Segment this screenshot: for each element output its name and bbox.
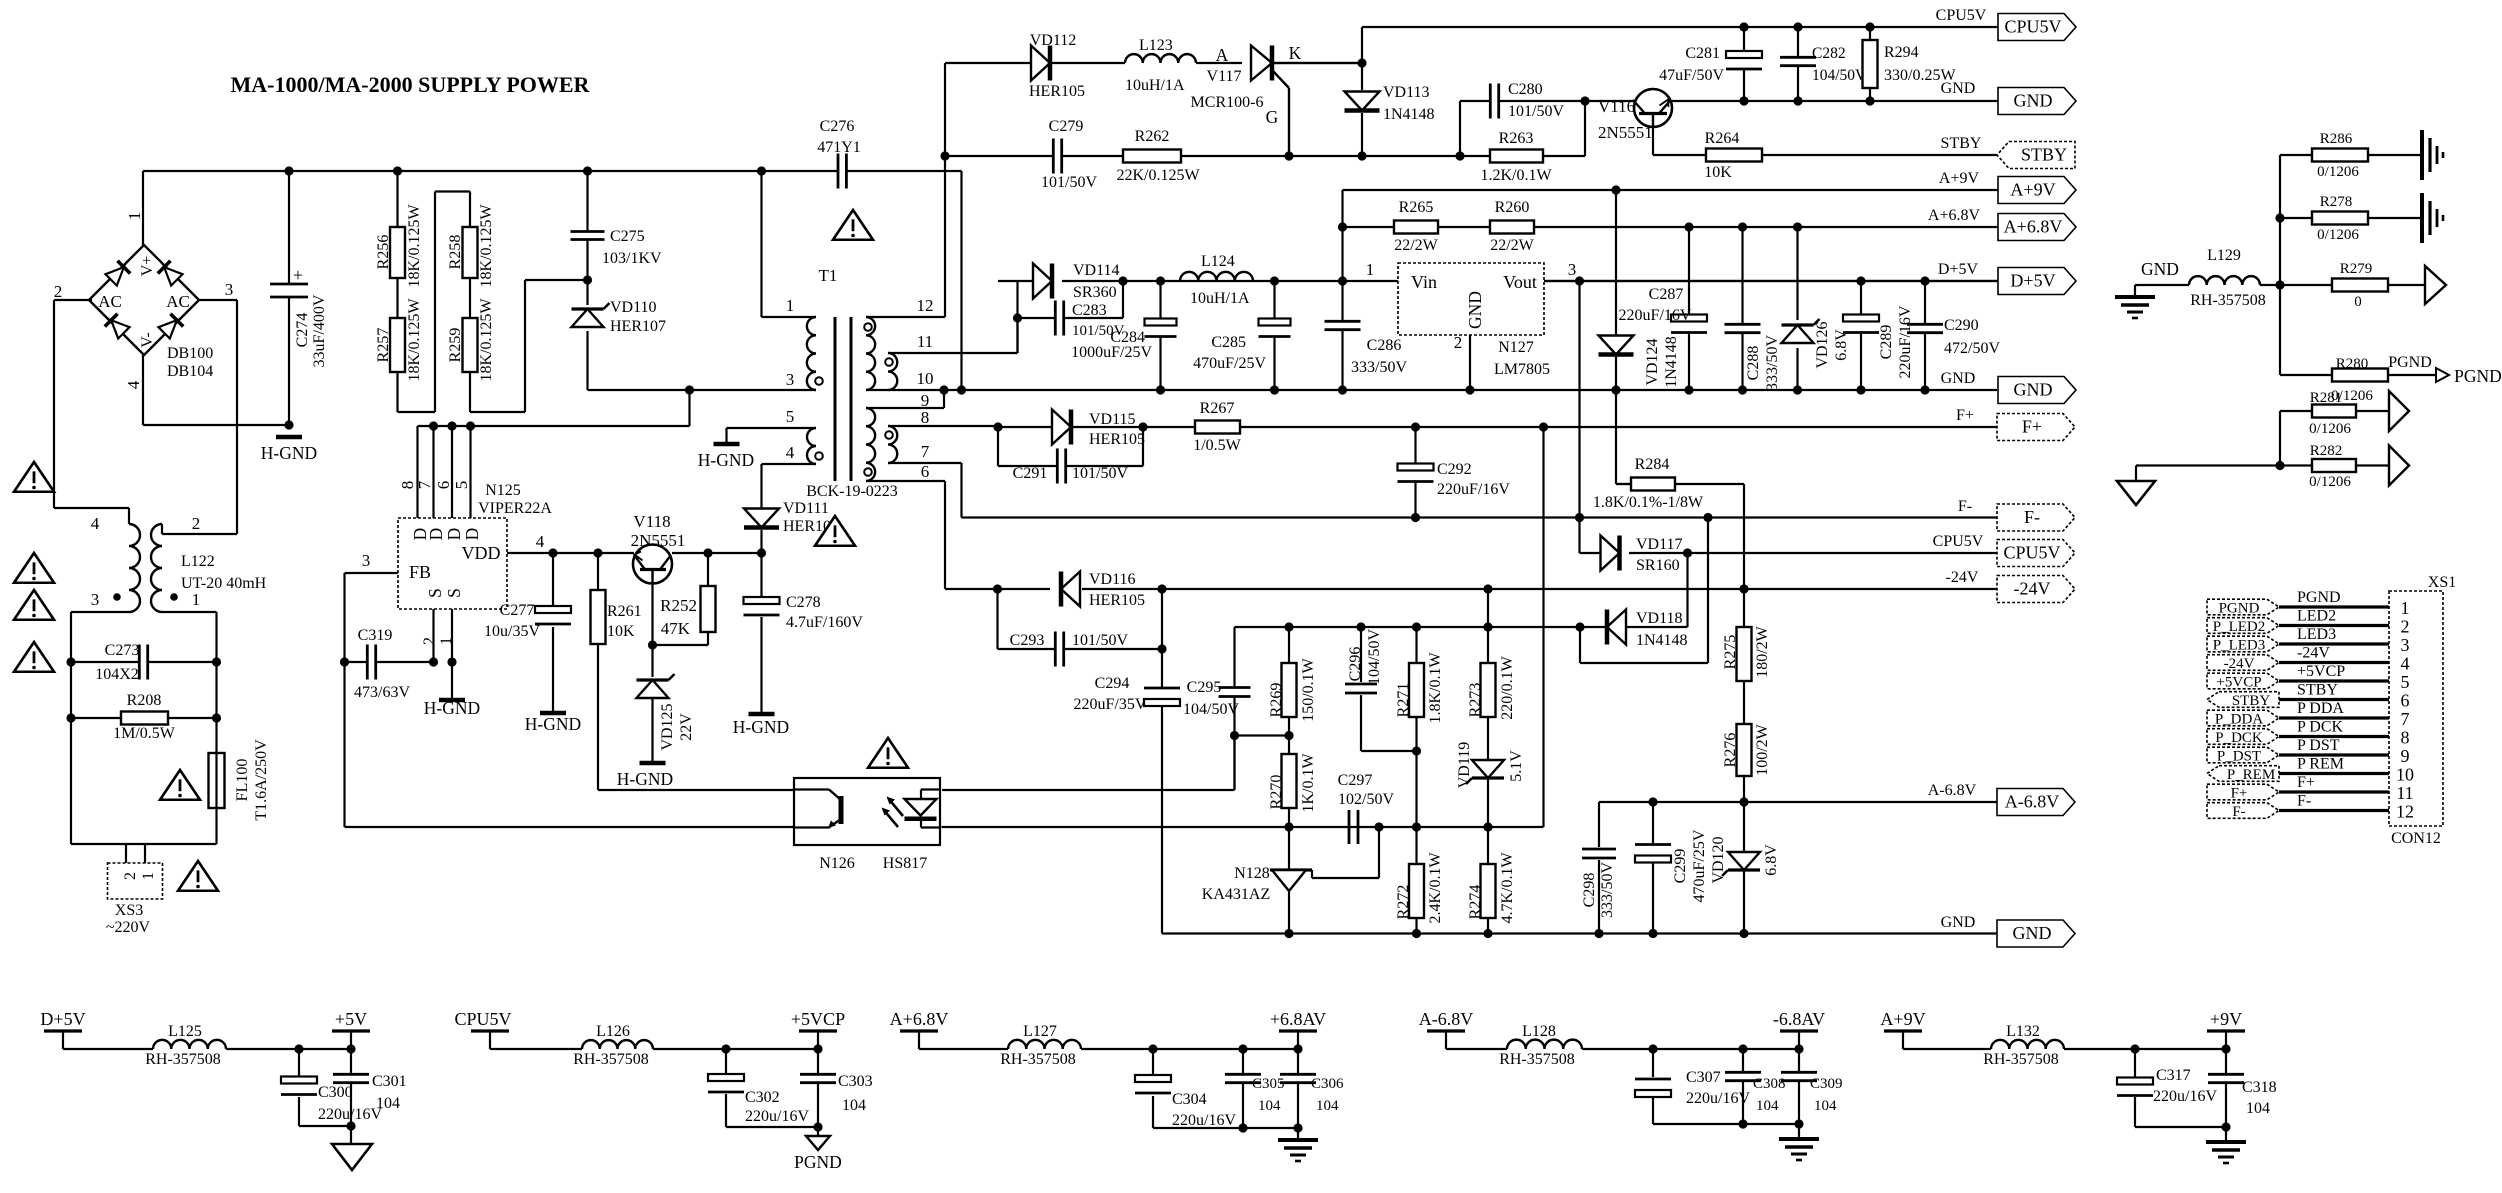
diode VD114 SR360 xyxy=(1033,262,1120,301)
wire T1 pin12 xyxy=(866,63,945,317)
wire C291 loop xyxy=(998,427,1143,466)
svg-text:104/50V: 104/50V xyxy=(1812,67,1867,84)
capacitor C317 220u/16V xyxy=(2117,1067,2217,1105)
svg-text:P_DST: P_DST xyxy=(2217,749,2261,765)
svg-text:3: 3 xyxy=(225,280,234,299)
resistor R271 1.8K/0.1W xyxy=(1395,652,1444,724)
junction R275 top xyxy=(1739,584,1748,593)
svg-text:5: 5 xyxy=(2401,672,2410,692)
svg-text:C306: C306 xyxy=(1311,1076,1344,1092)
wire N125 pin5 xyxy=(469,426,471,518)
svg-text:DB100: DB100 xyxy=(167,345,213,362)
wire V118 emitter xyxy=(651,584,653,677)
svg-text:104: 104 xyxy=(842,1097,866,1114)
net flag GND mid xyxy=(1998,377,2076,404)
resistor R270 1K/0.1W xyxy=(1268,753,1317,813)
wire R263 row xyxy=(1460,155,1585,157)
junctions drain bus xyxy=(429,421,475,430)
wire C308 branch xyxy=(1742,1049,1744,1124)
capacitor C307 220u/16V xyxy=(1635,1069,1750,1107)
svg-text:S: S xyxy=(444,588,464,598)
net flag P_DCK XS1 xyxy=(2207,729,2279,746)
inductor L126 RH-357508 xyxy=(573,1023,653,1068)
labels V116 xyxy=(1598,97,1653,142)
junction R276 bottom xyxy=(1739,797,1748,806)
resistor R256 18K/0.125W xyxy=(375,204,423,288)
svg-text:C287: C287 xyxy=(1649,286,1684,303)
wire VD124 vertical xyxy=(1616,190,1631,484)
capacitor C290 472/50V xyxy=(1907,317,2000,357)
svg-text:VD120: VD120 xyxy=(1710,836,1727,883)
svg-text:104: 104 xyxy=(376,1095,400,1112)
junctions R208 xyxy=(66,713,221,722)
wire C301 branch xyxy=(350,1049,352,1144)
wire XS1 pin 5 xyxy=(2279,679,2389,682)
svg-text:2N5551: 2N5551 xyxy=(1598,123,1653,142)
svg-text:HS817: HS817 xyxy=(883,855,927,872)
svg-text:10u/35V: 10u/35V xyxy=(484,623,540,640)
svg-text:GND: GND xyxy=(1465,291,1485,329)
wire VDD rail xyxy=(507,552,762,554)
svg-text:333/50V: 333/50V xyxy=(1599,862,1616,918)
wire VD110 row to T1 pin3 xyxy=(588,389,817,391)
svg-text:R272: R272 xyxy=(1395,885,1412,920)
svg-text:1N4148: 1N4148 xyxy=(1663,336,1680,388)
capacitor C279 101/50V xyxy=(1041,118,1097,191)
svg-text:101/50V: 101/50V xyxy=(1072,632,1128,649)
label PGND wire xyxy=(2388,354,2432,371)
svg-text:104: 104 xyxy=(1258,1098,1281,1114)
junction V118 emitter xyxy=(648,640,657,649)
junction C276 gnd rail xyxy=(957,385,966,394)
wire bridge pin2 to L122 xyxy=(54,300,129,524)
svg-text:A+6.8V: A+6.8V xyxy=(2004,217,2063,237)
resistor R263 1.2K/0.1W xyxy=(1490,150,1543,163)
resistor R276 100/2W xyxy=(1722,723,1771,776)
bridge labels xyxy=(54,212,234,390)
wire L126 row xyxy=(490,1048,818,1050)
wire C293 loop xyxy=(998,589,1163,649)
svg-text:Vin: Vin xyxy=(1411,272,1437,292)
svg-text:4: 4 xyxy=(124,380,143,389)
warning triangle 1 xyxy=(14,462,54,492)
label pin 4 N125 xyxy=(536,532,545,551)
junction VD120 bottom xyxy=(1739,929,1748,938)
svg-text:1: 1 xyxy=(2401,598,2410,618)
wire XS1 pin 7 xyxy=(2279,716,2389,719)
ground H-GND under C274 xyxy=(276,435,302,440)
wire A+6.8V rail xyxy=(1343,226,1999,228)
svg-text:H-GND: H-GND xyxy=(525,714,581,734)
wire T1 pin1 xyxy=(762,171,817,317)
svg-text:P_DCK: P_DCK xyxy=(2215,730,2263,746)
capacitor C283 101/50V xyxy=(1055,301,1124,340)
capacitor C281 47uF/50V xyxy=(1659,45,1762,84)
svg-text:FL100: FL100 xyxy=(234,759,251,802)
junction C299 bottom xyxy=(1648,929,1657,938)
wire C285 vertical xyxy=(1273,281,1275,390)
junction A+9V sense xyxy=(1611,185,1620,194)
capacitor C293 101/50V xyxy=(1010,632,1129,667)
wire R252 top xyxy=(707,553,709,586)
svg-text:4: 4 xyxy=(91,514,100,533)
label N127 pin1 xyxy=(1366,260,1375,279)
wire opto LED anode xyxy=(942,736,1235,791)
wire VD126 vertical xyxy=(1796,227,1798,390)
diode VD110 HER107 xyxy=(572,299,667,335)
labels R294 xyxy=(1884,44,1956,84)
svg-text:GND: GND xyxy=(2014,91,2053,111)
svg-text:STBY: STBY xyxy=(1941,135,1982,152)
svg-text:R286: R286 xyxy=(2320,131,2353,147)
svg-text:P DCK: P DCK xyxy=(2297,719,2344,736)
title xyxy=(231,72,591,97)
wire opto LED cathode row C xyxy=(940,826,943,828)
svg-text:104: 104 xyxy=(1814,1098,1837,1114)
net flag GND bottom xyxy=(1997,920,2075,947)
wire L128 row xyxy=(1446,1048,1799,1050)
wire C275 vertical xyxy=(586,171,588,280)
svg-text:1: 1 xyxy=(125,212,144,221)
svg-text:472/50V: 472/50V xyxy=(1944,340,2000,357)
svg-text:C295: C295 xyxy=(1187,679,1222,696)
svg-text:R261: R261 xyxy=(607,603,642,620)
svg-text:R271: R271 xyxy=(1395,683,1412,718)
svg-text:+9V: +9V xyxy=(2210,1009,2242,1029)
label XS1 pin number 4 xyxy=(2401,654,2410,674)
net flag P_DST XS1 xyxy=(2207,747,2279,764)
svg-text:F-: F- xyxy=(2232,804,2245,820)
svg-text:C297: C297 xyxy=(1338,772,1373,789)
svg-text:T1.6A/250V: T1.6A/250V xyxy=(253,739,270,821)
svg-text:4.7K/0.1W: 4.7K/0.1W xyxy=(1499,852,1516,924)
wire C295 branch xyxy=(1233,627,1235,736)
junctions block3 gnd xyxy=(1238,1123,1302,1132)
svg-text:220uF/16V: 220uF/16V xyxy=(1897,305,1914,378)
capacitor C288 333/50V xyxy=(1725,324,1782,391)
wire C302 branch xyxy=(726,1049,818,1127)
ground H-GND under C278 xyxy=(749,712,775,717)
svg-text:R264: R264 xyxy=(1705,130,1740,147)
inductor L129 RH-357508 xyxy=(2189,247,2266,309)
svg-text:1000uF/25V: 1000uF/25V xyxy=(1071,344,1152,361)
wire C303 branch xyxy=(817,1049,819,1136)
svg-text:104X2: 104X2 xyxy=(95,666,139,683)
label XS1 pin number 9 xyxy=(2401,746,2410,766)
label T1 pin4 xyxy=(786,443,795,462)
svg-text:R276: R276 xyxy=(1722,733,1739,768)
svg-text:470uF/25V: 470uF/25V xyxy=(1691,829,1708,902)
junction VD118 left rowA xyxy=(1575,622,1584,631)
resistor R272 2.4K/0.1W xyxy=(1395,852,1444,924)
label T1 pin12 xyxy=(917,296,934,315)
labels L122 xyxy=(91,514,267,609)
wire F+ rail xyxy=(998,426,1997,428)
net flag +5VCP XS1 xyxy=(2207,673,2279,690)
wire C304 branch xyxy=(1153,1049,1298,1128)
svg-text:C293: C293 xyxy=(1010,632,1045,649)
svg-text:8: 8 xyxy=(921,408,930,427)
wire XS1 pin 2 xyxy=(2279,624,2389,627)
svg-text:DB104: DB104 xyxy=(167,363,213,380)
svg-text:A-6.8V: A-6.8V xyxy=(1419,1009,1474,1029)
wire A+9V rail xyxy=(1343,190,1999,281)
labels N126 HS817 xyxy=(819,855,927,872)
junction VD113 bottom xyxy=(1357,151,1366,160)
svg-text:+5VCP: +5VCP xyxy=(2216,675,2261,691)
capacitor C285 470uF/25V xyxy=(1193,319,1290,373)
svg-text:5.1V: 5.1V xyxy=(1508,750,1525,782)
svg-text:L126: L126 xyxy=(596,1023,630,1040)
capacitor C295 104/50V xyxy=(1183,679,1251,718)
resistor R275 180/2W xyxy=(1722,625,1771,681)
net flag D+5V xyxy=(1998,268,2076,295)
svg-text:220/0.1W: 220/0.1W xyxy=(1499,655,1516,719)
svg-text:C294: C294 xyxy=(1095,675,1130,692)
capacitor C278 4.7uF/160V xyxy=(744,594,864,631)
svg-text:Vout: Vout xyxy=(1503,272,1537,292)
svg-text:1: 1 xyxy=(1366,260,1375,279)
svg-text:3: 3 xyxy=(91,590,100,609)
label XS1 pin number 5 xyxy=(2401,672,2410,692)
svg-text:C299: C299 xyxy=(1672,849,1689,884)
svg-text:P_DDA: P_DDA xyxy=(2215,712,2264,728)
svg-text:A-6.8V: A-6.8V xyxy=(2005,792,2060,812)
svg-text:MCR100-6: MCR100-6 xyxy=(1191,94,1264,111)
svg-text:XS1: XS1 xyxy=(2428,574,2456,591)
svg-text:47uF/50V: 47uF/50V xyxy=(1659,67,1724,84)
svg-text:V116: V116 xyxy=(1598,97,1635,116)
junctions block4 xyxy=(1648,1044,1803,1053)
wire C309 branch xyxy=(1798,1049,1800,1139)
svg-text:C296: C296 xyxy=(1347,647,1364,682)
label A+9V net xyxy=(1939,170,1980,187)
wire XS1 pin 4 xyxy=(2279,661,2389,664)
T1 secondary winding pins 12-11-10 xyxy=(864,317,897,390)
label T1 pin11 xyxy=(917,332,933,351)
label H-GND pin5 xyxy=(698,450,754,470)
svg-text:D+5V: D+5V xyxy=(2010,271,2055,291)
svg-text:7: 7 xyxy=(2401,709,2410,729)
svg-text:VD126: VD126 xyxy=(1814,321,1831,368)
wire N125 drain bus xyxy=(418,390,690,426)
svg-text:R294: R294 xyxy=(1884,44,1919,61)
junctions VD126 xyxy=(1793,222,1802,394)
svg-text:+5V: +5V xyxy=(335,1009,367,1029)
svg-text:-24V: -24V xyxy=(2014,579,2051,599)
resistor R252 47K xyxy=(701,586,716,632)
junction R281 R282 xyxy=(2275,461,2284,470)
svg-text:C285: C285 xyxy=(1211,334,1246,351)
junction R265 left xyxy=(1338,222,1347,231)
svg-text:N126: N126 xyxy=(819,855,855,872)
diode VD120 6.8V xyxy=(1710,836,1780,883)
svg-text:+5VCP: +5VCP xyxy=(791,1009,845,1029)
inductor L125 RH-357508 xyxy=(145,1023,226,1068)
junction VD117 out xyxy=(1683,548,1692,557)
svg-text:R275: R275 xyxy=(1722,635,1739,670)
wire R257 bottom jog xyxy=(398,192,471,413)
wire VD120 branch xyxy=(1743,802,1745,934)
svg-text:CPU5V: CPU5V xyxy=(1933,533,1984,550)
svg-text:XS3: XS3 xyxy=(115,902,143,919)
wire C307 branch xyxy=(1653,1049,1799,1124)
svg-text:C317: C317 xyxy=(2156,1067,2191,1084)
svg-text:1: 1 xyxy=(786,296,795,315)
svg-text:N125: N125 xyxy=(485,482,521,499)
power stub D+5V xyxy=(40,1009,85,1049)
junctions C286 xyxy=(1338,276,1347,394)
junction R256 rail xyxy=(393,166,402,175)
svg-text:P_LED3: P_LED3 xyxy=(2213,638,2266,654)
junctions GND rail xyxy=(1739,96,1874,105)
junction C292 bottom xyxy=(1411,513,1420,522)
diode VD115 HER105 xyxy=(1052,410,1145,449)
wire XS1 pin 11 xyxy=(2279,790,2389,793)
resistor R284 1.8K/0.1%-1/8W xyxy=(1631,478,1675,491)
svg-text:10uH/1A: 10uH/1A xyxy=(1190,290,1250,307)
svg-text:470uF/25V: 470uF/25V xyxy=(1193,355,1266,372)
warning triangle under C276 xyxy=(833,210,873,240)
svg-text:V-: V- xyxy=(139,332,156,347)
svg-text:RH-357508: RH-357508 xyxy=(1983,1051,2059,1068)
ground H-GND under C277 xyxy=(540,711,566,716)
junctions C273 xyxy=(66,657,221,666)
svg-text:C289: C289 xyxy=(1878,325,1895,360)
svg-text:VD111: VD111 xyxy=(783,500,829,517)
svg-text:101/50V: 101/50V xyxy=(1508,103,1564,120)
svg-text:L128: L128 xyxy=(1522,1023,1556,1040)
svg-text:220u/16V: 220u/16V xyxy=(2153,1088,2217,1105)
labels N128 xyxy=(1202,865,1270,903)
svg-text:GND: GND xyxy=(2141,259,2179,279)
wire XS1 pin 9 xyxy=(2279,753,2389,756)
label net STBY XS1 xyxy=(2297,682,2338,699)
junction C274 top rail xyxy=(284,166,293,175)
labels N125 pin numbers xyxy=(398,480,471,489)
wire C280 loop xyxy=(1460,101,1585,156)
svg-text:GND: GND xyxy=(1941,80,1976,97)
svg-text:VD125: VD125 xyxy=(659,703,676,750)
junction VD115 out xyxy=(1138,422,1147,431)
diode VD118 1N4148 xyxy=(1607,610,1688,650)
wire N125 pin6 xyxy=(451,426,453,518)
svg-text:1M/0.5W: 1M/0.5W xyxy=(113,725,176,742)
net flag F- xyxy=(1997,504,2075,531)
capacitor C308 104 xyxy=(1725,1072,1786,1114)
svg-text:0: 0 xyxy=(2354,294,2362,310)
label XS1 pin number 8 xyxy=(2401,728,2410,748)
svg-text:HER105: HER105 xyxy=(1029,83,1085,100)
svg-text:1: 1 xyxy=(192,590,201,609)
svg-text:4: 4 xyxy=(2401,654,2410,674)
svg-text:220u/16V: 220u/16V xyxy=(1686,1090,1750,1107)
junctions VDD rail xyxy=(548,548,766,557)
power stub A-6.8V xyxy=(1419,1009,1474,1049)
label D+5V net xyxy=(1938,261,1979,278)
label N127 pin2 xyxy=(1454,333,1463,352)
junction F+ C292 row xyxy=(1539,422,1548,431)
svg-text:220uF/35V: 220uF/35V xyxy=(1074,696,1147,713)
svg-text:VD113: VD113 xyxy=(1383,84,1430,101)
svg-text:C290: C290 xyxy=(1944,317,1979,334)
wire C278 vertical xyxy=(760,553,762,712)
wire C286 vertical xyxy=(1341,281,1343,390)
svg-text:180/2W: 180/2W xyxy=(1754,625,1771,677)
chassis ground R286 xyxy=(2422,130,2443,180)
label net P DCK XS1 xyxy=(2297,719,2344,736)
junctions C285 xyxy=(1270,276,1279,394)
svg-text:5: 5 xyxy=(452,481,471,490)
wire T1 pin5 to H-GND xyxy=(727,428,817,443)
junctions block5 xyxy=(2130,1044,2230,1053)
label N127 pin3 xyxy=(1568,260,1577,279)
svg-text:UT-20 40mH: UT-20 40mH xyxy=(181,575,267,592)
wire opto collector xyxy=(598,789,794,791)
wire C274 vertical xyxy=(288,171,290,425)
wire L129 out xyxy=(2260,155,2280,375)
svg-text:A-6.8V: A-6.8V xyxy=(1928,782,1977,799)
label H-GND C274 xyxy=(261,443,317,463)
labels R264 xyxy=(1704,130,1739,181)
svg-text:R273: R273 xyxy=(1467,683,1484,718)
svg-text:9: 9 xyxy=(2401,746,2410,766)
wire R269 leads xyxy=(1288,627,1290,827)
svg-text:L125: L125 xyxy=(168,1023,202,1040)
svg-text:C286: C286 xyxy=(1367,337,1402,354)
svg-text:GND: GND xyxy=(1941,914,1976,931)
svg-text:CPU5V: CPU5V xyxy=(454,1009,511,1029)
svg-text:11: 11 xyxy=(917,332,933,351)
resistor R278 0/1206 xyxy=(2312,194,2368,243)
arrow out R282 xyxy=(2389,446,2409,486)
labels V118 xyxy=(631,512,686,550)
wire FL100 bottom / XS3 loop xyxy=(71,808,217,863)
label GND net mid xyxy=(1941,370,1976,387)
net flag P_LED3 XS1 xyxy=(2207,636,2279,653)
label T1 xyxy=(819,266,838,285)
wire C284 vertical xyxy=(1159,281,1161,390)
svg-text:0/1206: 0/1206 xyxy=(2309,421,2351,437)
label GND L129 xyxy=(2141,259,2179,279)
svg-text:RH-357508: RH-357508 xyxy=(145,1051,221,1068)
power stub +5V xyxy=(332,1009,370,1049)
wire STBY feedback row xyxy=(945,155,1460,157)
wire XS1 pin 6 xyxy=(2279,698,2389,701)
labels N127 xyxy=(1494,339,1550,378)
svg-text:F+: F+ xyxy=(2022,417,2042,437)
wire C287 vertical xyxy=(1688,227,1690,390)
wire C294 vertical xyxy=(1162,649,1997,934)
junction VD118 F- tap xyxy=(1703,513,1712,522)
wire L127 row xyxy=(919,1048,1298,1050)
label H-GND C277 xyxy=(525,714,581,734)
svg-text:473/63V: 473/63V xyxy=(354,684,410,701)
wire C289 vertical xyxy=(1860,281,1862,390)
diode VD113 1N4148 xyxy=(1345,84,1435,123)
svg-text:5: 5 xyxy=(786,407,795,426)
junction VD124 gnd xyxy=(1611,385,1620,394)
svg-text:10: 10 xyxy=(917,369,934,388)
wire N125 pin8 xyxy=(416,426,418,518)
svg-text:LED3: LED3 xyxy=(2297,626,2336,643)
wire R279 row xyxy=(2280,284,2425,286)
svg-text:R282: R282 xyxy=(2310,443,2343,459)
svg-text:C302: C302 xyxy=(745,1089,780,1106)
svg-text:7: 7 xyxy=(921,442,930,461)
wire feedback row A xyxy=(1235,626,1581,628)
svg-text:104: 104 xyxy=(1316,1098,1339,1114)
